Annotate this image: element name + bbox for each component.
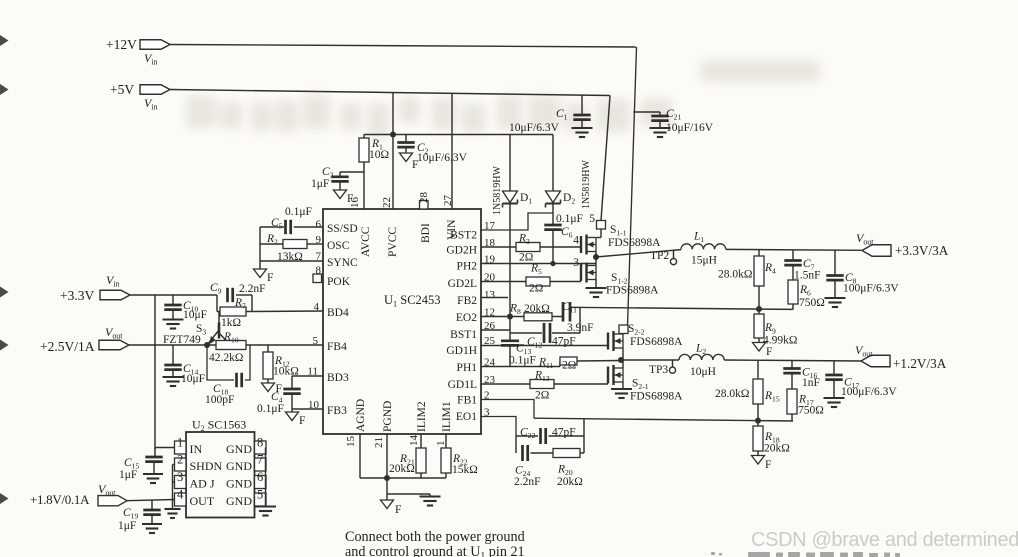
svg-text:+1.8V/0.1A: +1.8V/0.1A <box>30 492 90 507</box>
svg-text:OSC: OSC <box>327 240 350 252</box>
svg-text:GD1L: GD1L <box>448 379 477 391</box>
svg-text:GD1H: GD1H <box>446 345 477 357</box>
svg-text:100μF/6.3V: 100μF/6.3V <box>843 283 899 295</box>
svg-text:21: 21 <box>373 437 385 448</box>
svg-text:and control ground at U1 pin 2: and control ground at U1 pin 21 <box>345 544 525 557</box>
svg-text:U2 SC1563: U2 SC1563 <box>192 418 246 434</box>
svg-text:10μH: 10μH <box>690 366 716 378</box>
svg-text:15kΩ: 15kΩ <box>452 464 478 476</box>
svg-text:FDS6898A: FDS6898A <box>608 237 661 249</box>
svg-text:5: 5 <box>589 213 595 225</box>
svg-text:28.0kΩ: 28.0kΩ <box>715 388 749 400</box>
svg-text:CSDN @brave and determined: CSDN @brave and determined <box>751 529 1018 551</box>
svg-text:GND: GND <box>226 494 252 508</box>
svg-text:20kΩ: 20kΩ <box>524 303 550 315</box>
svg-text:+2.5V/1A: +2.5V/1A <box>40 339 95 354</box>
svg-text:15: 15 <box>345 436 357 448</box>
svg-text:BD3: BD3 <box>327 372 349 384</box>
svg-text:EO1: EO1 <box>456 411 477 423</box>
svg-text:F: F <box>395 504 401 516</box>
svg-text:1N5819HW: 1N5819HW <box>581 160 592 209</box>
svg-text:+5V: +5V <box>110 82 134 97</box>
svg-text:Connect both the power ground: Connect both the power ground <box>345 529 525 545</box>
svg-text:20kΩ: 20kΩ <box>389 463 415 475</box>
svg-text:FDS6898A: FDS6898A <box>606 285 659 297</box>
svg-text:F: F <box>765 459 771 471</box>
svg-text:100μF/6.3V: 100μF/6.3V <box>841 386 897 398</box>
svg-text:6: 6 <box>257 470 263 484</box>
svg-text:750Ω: 750Ω <box>798 405 824 417</box>
svg-text:POK: POK <box>327 276 351 288</box>
svg-text:10μF: 10μF <box>181 373 205 385</box>
svg-text:GND: GND <box>226 459 252 473</box>
svg-text:0.1μF: 0.1μF <box>257 403 284 415</box>
svg-text:0.1μF: 0.1μF <box>509 355 536 367</box>
svg-text:3: 3 <box>177 470 183 484</box>
svg-text:FDS6898A: FDS6898A <box>630 336 683 348</box>
svg-text:SHDN: SHDN <box>190 459 223 473</box>
svg-text:6: 6 <box>316 219 322 231</box>
svg-text:1μF: 1μF <box>118 520 136 532</box>
svg-text:+1.2V/3A: +1.2V/3A <box>893 356 947 371</box>
svg-text:2Ω: 2Ω <box>562 360 576 372</box>
svg-text:4: 4 <box>573 235 579 247</box>
svg-text:EO2: EO2 <box>456 312 477 324</box>
svg-text:10μF/6.3V: 10μF/6.3V <box>417 152 468 164</box>
svg-text:27: 27 <box>442 195 454 207</box>
svg-text:TP2: TP2 <box>650 250 669 262</box>
svg-text:FB4: FB4 <box>327 341 347 353</box>
svg-text:FDS6898A: FDS6898A <box>630 391 683 403</box>
svg-text:42.2kΩ: 42.2kΩ <box>209 352 243 364</box>
svg-text:F: F <box>299 415 305 427</box>
svg-text:FZT749: FZT749 <box>163 334 201 346</box>
svg-text:2Ω: 2Ω <box>529 283 543 295</box>
svg-text:FB3: FB3 <box>327 405 347 417</box>
svg-text:VIN: VIN <box>446 219 458 240</box>
svg-text:16: 16 <box>349 197 361 209</box>
svg-text:+3.3V: +3.3V <box>60 288 94 303</box>
svg-text:47pF: 47pF <box>552 427 576 439</box>
svg-text:8: 8 <box>257 436 263 450</box>
svg-text:FB1: FB1 <box>457 395 477 407</box>
svg-text:AGND: AGND <box>355 399 367 432</box>
svg-text:2Ω: 2Ω <box>535 390 549 402</box>
svg-text:2.2nF: 2.2nF <box>514 476 541 488</box>
svg-text:PGND: PGND <box>382 401 394 432</box>
svg-text:1μF: 1μF <box>119 469 137 481</box>
svg-text:BDI: BDI <box>420 223 432 243</box>
svg-text:10μF/16V: 10μF/16V <box>666 122 714 134</box>
svg-text:+12V: +12V <box>106 37 137 52</box>
svg-text:FB2: FB2 <box>457 295 477 307</box>
svg-text:0.1μF: 0.1μF <box>285 206 312 218</box>
svg-text:BST1: BST1 <box>450 329 477 341</box>
svg-text:1N5819HW: 1N5819HW <box>492 166 503 215</box>
svg-text:1: 1 <box>177 436 183 450</box>
svg-text:10μF: 10μF <box>183 309 207 321</box>
svg-text:13kΩ: 13kΩ <box>277 251 303 263</box>
svg-text:7: 7 <box>257 453 263 467</box>
svg-text:100pF: 100pF <box>205 394 234 406</box>
svg-text:+3.3V/3A: +3.3V/3A <box>895 243 949 258</box>
svg-text:0.1μF: 0.1μF <box>556 213 583 225</box>
svg-text:1: 1 <box>435 441 447 447</box>
svg-text:5: 5 <box>257 488 263 502</box>
svg-text:PVCC: PVCC <box>387 227 399 257</box>
svg-text:1.5nF: 1.5nF <box>794 270 821 282</box>
svg-text:15μH: 15μH <box>691 255 717 267</box>
svg-text:IN: IN <box>190 442 203 456</box>
svg-text:2: 2 <box>177 453 183 467</box>
svg-text:20kΩ: 20kΩ <box>557 476 583 488</box>
svg-text:F: F <box>267 272 273 284</box>
svg-text:F: F <box>766 346 772 358</box>
svg-text:14: 14 <box>408 435 420 447</box>
svg-text:GND: GND <box>226 477 252 491</box>
svg-text:SS/SD: SS/SD <box>327 223 358 235</box>
svg-text:PH1: PH1 <box>457 362 478 374</box>
svg-text:GD2L: GD2L <box>448 278 477 290</box>
svg-text:13: 13 <box>484 289 496 301</box>
svg-text:10μF/6.3V: 10μF/6.3V <box>509 122 560 134</box>
svg-text:1kΩ: 1kΩ <box>221 317 241 329</box>
svg-text:SYNC: SYNC <box>327 257 358 269</box>
svg-text:10Ω: 10Ω <box>369 149 389 161</box>
svg-text:PH2: PH2 <box>457 261 478 273</box>
svg-text:AD J: AD J <box>190 477 215 491</box>
svg-text:GND: GND <box>226 442 252 456</box>
svg-text:1nF: 1nF <box>802 377 820 389</box>
svg-text:22: 22 <box>381 197 393 208</box>
svg-text:3: 3 <box>573 257 579 269</box>
svg-text:2.2nF: 2.2nF <box>239 283 266 295</box>
svg-text:4.99kΩ: 4.99kΩ <box>763 335 797 347</box>
svg-text:750Ω: 750Ω <box>799 297 825 309</box>
svg-text:4: 4 <box>177 488 184 502</box>
svg-text:OUT: OUT <box>190 494 215 508</box>
svg-text:AVCC: AVCC <box>360 226 372 257</box>
svg-text:ILIM1: ILIM1 <box>441 401 453 432</box>
svg-text:GD2H: GD2H <box>446 245 477 257</box>
svg-text:BD4: BD4 <box>327 307 349 319</box>
svg-text:ILIM2: ILIM2 <box>416 401 428 432</box>
svg-text:TP3: TP3 <box>649 364 668 376</box>
svg-text:U1 SC2453: U1 SC2453 <box>384 293 441 309</box>
svg-text:1μF: 1μF <box>311 178 329 190</box>
svg-text:28.0kΩ: 28.0kΩ <box>718 269 752 281</box>
svg-text:20kΩ: 20kΩ <box>764 443 790 455</box>
svg-text:28: 28 <box>418 192 430 204</box>
